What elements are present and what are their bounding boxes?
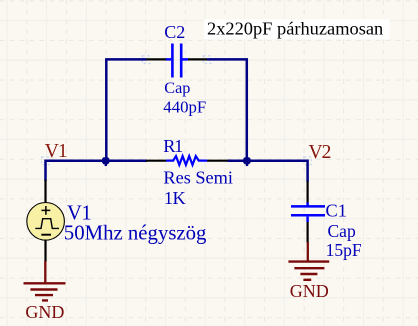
svg-text:15pF: 15pF	[326, 240, 362, 260]
wire left vertical to C2 loop	[106, 59, 146, 161]
svg-text:1K: 1K	[164, 188, 187, 208]
capacitor C1 lead stubs	[306, 202, 309, 222]
svg-text:Res Semi: Res Semi	[163, 167, 233, 187]
capacitor C2 lead stubs	[166, 58, 188, 61]
svg-text:GND: GND	[25, 302, 64, 322]
no-ERC / connection marks (light blue dashed squares)	[42, 56, 312, 165]
source V1 plus	[42, 206, 51, 215]
svg-text:V2: V2	[309, 142, 331, 163]
ground left bars	[24, 283, 66, 300]
note text background	[204, 19, 390, 39]
junction right	[243, 157, 250, 164]
svg-text:50Mhz négyszög: 50Mhz négyszög	[64, 222, 207, 245]
source V1 circle	[27, 203, 65, 241]
svg-text:440pF: 440pF	[163, 98, 206, 117]
svg-text:GND: GND	[290, 281, 329, 301]
capacitor C1 plates	[291, 206, 325, 215]
capacitor C1 pins	[307, 181, 309, 243]
ground right bars	[288, 262, 329, 280]
wire top-right of C2 loop	[207, 59, 247, 161]
svg-text:Cap: Cap	[164, 79, 190, 97]
capacitor C2 pins	[147, 58, 208, 60]
resistor R1 zigzag	[166, 156, 207, 165]
capacitor C2 plates	[172, 44, 181, 78]
resistor R1 pins	[146, 160, 228, 162]
junction left	[102, 157, 109, 164]
svg-text:R1: R1	[163, 136, 183, 156]
svg-text:2x220pF párhuzamosan: 2x220pF párhuzamosan	[207, 19, 383, 39]
svg-text:C1: C1	[326, 201, 347, 221]
svg-text:C2: C2	[164, 22, 185, 42]
source V1 pulse waveform	[35, 219, 59, 229]
wire middle right segment	[228, 161, 308, 182]
ground right stub	[307, 242, 309, 262]
source V1 minus	[41, 234, 51, 236]
ground left stub	[44, 261, 46, 284]
source V1 pins	[44, 180, 46, 262]
svg-text:V1: V1	[45, 141, 67, 162]
wire V1 top-left L segment	[46, 161, 148, 181]
svg-text:Cap: Cap	[328, 221, 356, 241]
